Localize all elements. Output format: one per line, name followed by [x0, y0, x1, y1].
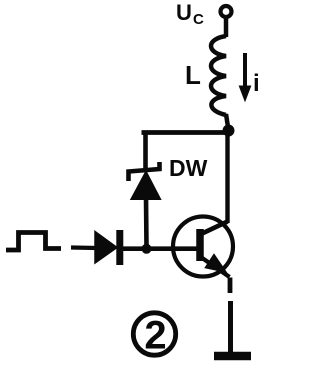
- pulse input symbol: [6, 233, 61, 251]
- node junction top: [223, 125, 235, 137]
- transistor Q circle: [173, 217, 233, 277]
- svg-text:L: L: [185, 60, 201, 90]
- transistor emitter arrowhead: [208, 257, 224, 270]
- wire inductor to node: [226, 114, 228, 127]
- svg-text:U: U: [176, 0, 192, 25]
- diode D1 cathode bar: [116, 230, 123, 265]
- wire terminal to inductor: [224, 17, 229, 37]
- label i: [253, 70, 260, 97]
- node Uc terminal: [221, 6, 232, 17]
- label DW: [169, 155, 208, 181]
- transistor collector diagonal: [200, 222, 228, 235]
- wire emitter upper segment: [228, 278, 233, 294]
- node base junction: [142, 244, 152, 254]
- zener diode DW triangle: [132, 172, 161, 199]
- svg-text:i: i: [253, 70, 260, 97]
- ground: [214, 352, 251, 361]
- current arrow i: [243, 53, 247, 88]
- wire zener to base junction: [144, 198, 149, 247]
- svg-text:DW: DW: [169, 155, 208, 181]
- wire collector vertical: [225, 134, 229, 223]
- transistor base bar: [196, 229, 204, 261]
- wire zener branch upper: [143, 131, 148, 172]
- inductor L: [211, 36, 226, 115]
- svg-text:C: C: [193, 11, 204, 28]
- wire diode to base: [123, 246, 197, 251]
- svg-text:2: 2: [144, 314, 166, 358]
- wire emitter lower segment: [228, 301, 233, 353]
- wire pulse to diode: [71, 245, 97, 250]
- label L: [185, 60, 201, 90]
- zener diode DW cathode bar: [129, 162, 160, 181]
- wire top horizontal: [142, 130, 232, 135]
- diode D1 triangle: [95, 232, 117, 264]
- transistor emitter diagonal: [200, 257, 230, 278]
- figure number circle 2: [133, 313, 175, 355]
- label Uc: [176, 0, 204, 28]
